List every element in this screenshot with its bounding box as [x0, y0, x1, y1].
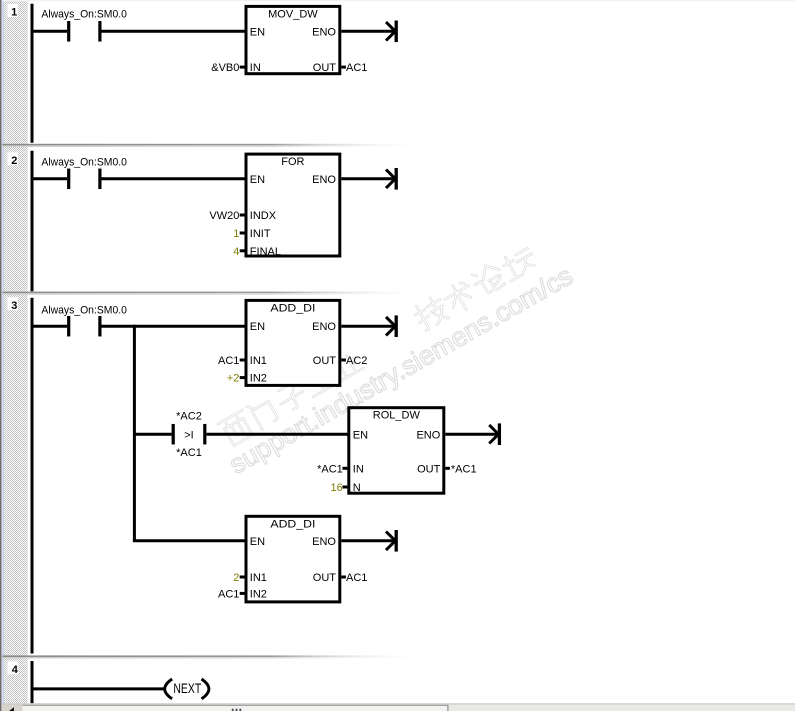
svg-text:EN: EN: [353, 429, 368, 441]
svg-text:Always_On:SM0.0: Always_On:SM0.0: [41, 9, 127, 21]
svg-text:AC1: AC1: [346, 572, 367, 584]
wire branch corner to ADD_DI2 EN: [133, 539, 247, 542]
svg-text:OUT: OUT: [313, 355, 337, 367]
svg-text:*AC1: *AC1: [176, 447, 202, 459]
stub FOR INDX: [240, 214, 245, 217]
power rail network 2: [31, 151, 34, 291]
svg-text:INDX: INDX: [250, 210, 277, 222]
separator network3/4 light: [2, 657, 795, 659]
svg-text:ENO: ENO: [312, 174, 336, 186]
stub MOV_DW OUT: [341, 66, 346, 69]
stub ROL_DW OUT: [445, 467, 450, 470]
svg-text:ENO: ENO: [416, 429, 440, 441]
svg-text:ADD_DI: ADD_DI: [270, 518, 315, 530]
network 2 number background: [8, 152, 19, 165]
svg-text:FINAL: FINAL: [250, 246, 281, 258]
stub FOR FINAL: [240, 249, 245, 252]
wire net1 rail to contact: [31, 30, 68, 33]
coil NEXT right paren: [202, 679, 209, 699]
box ADD_DI first: [246, 300, 340, 385]
svg-text:OUT: OUT: [417, 463, 441, 475]
open rung arrow net3 row3: [386, 532, 395, 551]
window left blue strip: [2, 0, 4, 711]
wire net4 rail to NEXT coil: [31, 687, 166, 690]
svg-text:ENO: ENO: [312, 321, 336, 333]
power rail network 1: [31, 4, 34, 143]
wire ADD_DI1 ENO to arrow: [341, 325, 395, 328]
contact Always_On:SM0.0 net3: [67, 316, 70, 337]
svg-text:IN1: IN1: [250, 355, 267, 367]
stub ADD_DI1 OUT: [341, 359, 346, 362]
svg-text:4: 4: [12, 664, 19, 676]
svg-text:>I: >I: [184, 429, 193, 441]
wire net2 rail to contact: [31, 177, 68, 180]
top separator line: [2, 0, 795, 1]
svg-text:INIT: INIT: [250, 228, 271, 240]
network 3 number background: [8, 297, 19, 310]
svg-text:IN2: IN2: [250, 588, 267, 600]
svg-text:3: 3: [11, 300, 17, 312]
power rail network 3: [31, 298, 34, 654]
wire compare contact to ROL_DW EN: [206, 433, 349, 436]
svg-text:EN: EN: [250, 536, 265, 548]
svg-text:NEXT: NEXT: [173, 680, 201, 696]
svg-text:+2: +2: [227, 373, 240, 385]
window left border dark edge: [0, 0, 1, 711]
scrollbar left button: [2, 705, 22, 711]
wire net2 contact to FOR EN: [102, 177, 248, 180]
wire ROL_DW ENO to arrow: [445, 433, 498, 436]
svg-text:&VB0: &VB0: [211, 62, 239, 74]
svg-text:MOV_DW: MOV_DW: [268, 8, 318, 20]
wire net3 rail to contact: [31, 325, 68, 328]
separator network1/2 dark: [2, 144, 795, 146]
box ADD_DI second: [246, 516, 340, 602]
stub FOR INIT: [240, 232, 245, 235]
window left border light edge: [1, 0, 3, 711]
svg-text:AC1: AC1: [346, 62, 367, 74]
contact Always_On:SM0.0 net1: [67, 21, 70, 42]
stub ADD_DI2 OUT: [341, 576, 346, 579]
svg-text:2: 2: [233, 572, 239, 584]
svg-text:Always_On:SM0.0: Always_On:SM0.0: [41, 156, 127, 168]
svg-text:1: 1: [11, 7, 17, 19]
power rail network 4: [31, 661, 34, 703]
scrollbar thumb: [23, 705, 449, 711]
stub MOV_DW IN: [240, 66, 245, 69]
svg-text:FOR: FOR: [281, 156, 304, 168]
open rung arrow net1: [386, 22, 395, 41]
svg-text:IN: IN: [353, 463, 364, 475]
svg-text:ROL_DW: ROL_DW: [373, 409, 421, 421]
wire net3 contact to ADD_DI EN with branch node: [102, 325, 248, 328]
svg-text:ENO: ENO: [312, 536, 336, 548]
svg-text:*AC2: *AC2: [176, 410, 202, 422]
svg-text:*AC1: *AC1: [451, 463, 477, 475]
network 1 number background: [8, 4, 19, 17]
box MOV_DW: [246, 6, 340, 73]
separator network1/2 light: [2, 145, 795, 147]
compare contact >I bars: [172, 424, 175, 445]
stub ADD_DI2 IN2: [240, 592, 245, 595]
svg-text:IN1: IN1: [250, 572, 267, 584]
scrollbar thumb top border: [23, 705, 449, 706]
svg-text:EN: EN: [250, 321, 265, 333]
wire FOR ENO to arrow: [341, 177, 395, 180]
svg-text:N: N: [353, 482, 361, 494]
open rung arrow net2: [386, 170, 395, 189]
svg-text:AC2: AC2: [346, 355, 367, 367]
scrollbar thumb right border: [447, 705, 448, 711]
wire branch to compare contact: [134, 433, 171, 436]
svg-text:EN: EN: [250, 26, 265, 38]
network gutter dithered background: [4, 1, 28, 703]
svg-text:ENO: ENO: [312, 26, 336, 38]
separator network2/3 dark: [2, 292, 795, 294]
window left border mid edge: [0, 0, 3, 711]
svg-text:AC1: AC1: [218, 588, 239, 600]
coil NEXT left paren: [165, 679, 172, 699]
contact Always_On:SM0.0 net2: [67, 169, 70, 190]
svg-text:16: 16: [331, 482, 343, 494]
svg-text:EN: EN: [250, 174, 265, 186]
svg-text:VW20: VW20: [209, 210, 239, 222]
wire MOV_DW ENO to arrow: [341, 30, 395, 33]
svg-text:OUT: OUT: [313, 572, 337, 584]
stub ROL_DW IN: [343, 467, 348, 470]
open rung arrow net3 row1: [386, 317, 395, 336]
scrollbar top border: [2, 703, 795, 704]
box FOR: [246, 154, 340, 256]
separator network2/3 light: [2, 293, 795, 295]
svg-text:Always_On:SM0.0: Always_On:SM0.0: [41, 304, 127, 316]
branch wire vertical net3: [133, 325, 136, 541]
stub ADD_DI1 IN1: [240, 359, 245, 362]
svg-text:IN: IN: [250, 62, 261, 74]
stub ADD_DI2 IN1: [240, 576, 245, 579]
separator network3/4 dark: [2, 655, 795, 657]
diagonal watermark siemens forum: [207, 231, 577, 480]
wire net1 contact to MOV_DW EN: [102, 30, 248, 33]
network 4 number background: [8, 661, 19, 674]
svg-text:AC1: AC1: [218, 355, 239, 367]
scrollbar track: [2, 705, 795, 711]
svg-text:4: 4: [233, 246, 239, 258]
svg-text:*AC1: *AC1: [317, 463, 343, 475]
svg-text:1: 1: [233, 228, 239, 240]
svg-text:ADD_DI: ADD_DI: [270, 302, 315, 314]
wire ADD_DI2 ENO to arrow: [341, 539, 395, 542]
open rung arrow net3 row2: [489, 425, 498, 444]
stub ROL_DW N: [343, 486, 348, 489]
scrollbar left button arrow: [9, 707, 14, 711]
svg-text:OUT: OUT: [313, 62, 337, 74]
svg-text:IN2: IN2: [250, 373, 267, 385]
scrollbar thumb grip dots: [232, 709, 234, 711]
svg-text:2: 2: [11, 155, 17, 167]
stub ADD_DI1 IN2: [240, 376, 245, 379]
box ROL_DW: [349, 408, 444, 494]
